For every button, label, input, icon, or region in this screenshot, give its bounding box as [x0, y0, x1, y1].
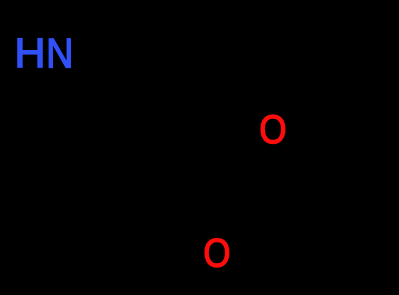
bond C2-C3 (ring): [135, 75, 162, 150]
bond C5-O (ester oxygen): [225, 146, 268, 185]
bond C3-C5 (to carbonyl carbon): [162, 150, 225, 185]
bond C3-C4 (ring): [90, 128, 162, 150]
atom label N-H (HN): [14, 30, 73, 77]
double bond C5=O (carbonyl): [219, 187, 222, 230]
bond C4-N (ring): [45, 75, 90, 128]
bond N-C2 (ring): [75, 47, 135, 75]
svg-text:O: O: [259, 107, 286, 152]
bond O-C6 (methyl): [285, 70, 340, 112]
svg-text:N: N: [46, 31, 73, 77]
svg-text:H: H: [14, 30, 45, 77]
svg-text:O: O: [203, 230, 230, 275]
